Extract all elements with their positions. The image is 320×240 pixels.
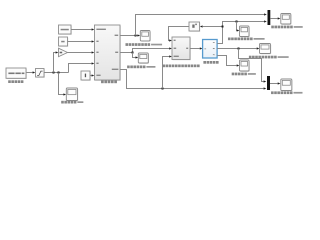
wire down to wind scope bbox=[59, 73, 67, 96]
wire Te branch to te scope bbox=[133, 53, 139, 59]
constant air density 1.225 bbox=[59, 25, 72, 35]
wind source caption bbox=[8, 80, 23, 83]
wind turbine model block bbox=[95, 25, 121, 81]
wire up to gain bbox=[54, 51, 59, 72]
wire up to block2 in3 bbox=[163, 55, 172, 88]
wire z-1 out to block2 in1 bbox=[169, 27, 190, 42]
wire wind to block1 in4 bbox=[69, 62, 95, 72]
wire branch to scope Pe bbox=[237, 22, 240, 32]
wire branch to mux2 in1 bbox=[239, 49, 267, 83]
compare power caption bbox=[271, 26, 302, 29]
saturation block bbox=[36, 69, 45, 78]
scope gen speed bbox=[240, 60, 250, 72]
scope Pe caption bbox=[228, 38, 265, 41]
scope speed caption bbox=[232, 73, 256, 76]
wire const2 to block1 in2 bbox=[68, 40, 95, 42]
gain triangle bbox=[59, 48, 68, 57]
wire gain to block1 in3 bbox=[68, 51, 95, 53]
wind speed source block bbox=[6, 68, 27, 79]
mux1 bbox=[268, 10, 271, 25]
generator control block2 bbox=[172, 37, 191, 60]
wire gen out2 to scope Te2 bbox=[217, 47, 259, 49]
wire const1 to block1 in1 bbox=[71, 28, 94, 30]
scope compare power bbox=[281, 14, 292, 25]
wire block2 out to generator bbox=[190, 47, 203, 49]
wire mux2 to compare speed scope bbox=[270, 82, 280, 84]
scope Pw caption bbox=[125, 43, 162, 46]
scope compare speed bbox=[281, 79, 293, 91]
constant radius 40 bbox=[59, 37, 69, 47]
scope wind speed bbox=[66, 88, 78, 101]
generator block selected blue bbox=[203, 40, 218, 59]
scope Te2 caption bbox=[249, 56, 289, 59]
compare speed caption bbox=[271, 91, 302, 94]
unit delay z-1 flipped bbox=[189, 22, 200, 32]
wire Pw to scope1 bbox=[120, 34, 140, 36]
wire gen out3 to scope speed bbox=[217, 56, 239, 67]
wire wind to saturation bbox=[26, 71, 35, 73]
scope Te bbox=[138, 53, 149, 64]
scope Pw bbox=[140, 31, 150, 42]
wire saturation out bbox=[44, 72, 69, 74]
scope Te caption bbox=[127, 66, 155, 69]
wire wt_rpm bottom to mux2 bbox=[120, 70, 266, 90]
wire constant pitch to block1 in5 bbox=[90, 74, 94, 76]
wire gen out1 to mux1 in2 bbox=[217, 20, 267, 43]
wire Pw up to mux1 bbox=[136, 13, 267, 35]
wire into z-1 right input bbox=[200, 25, 223, 27]
block2 caption bbox=[162, 65, 199, 68]
generator caption bbox=[203, 61, 218, 64]
wire mux1 to compare scope bbox=[270, 17, 280, 19]
scope Te2 bbox=[260, 44, 272, 55]
wire Te to block2 in2 bbox=[120, 47, 172, 53]
constant pitch bbox=[81, 71, 91, 81]
wind scope caption bbox=[61, 101, 83, 104]
block1 caption bbox=[101, 81, 117, 84]
mux2 bbox=[267, 76, 270, 90]
scope Pe bbox=[240, 26, 250, 37]
